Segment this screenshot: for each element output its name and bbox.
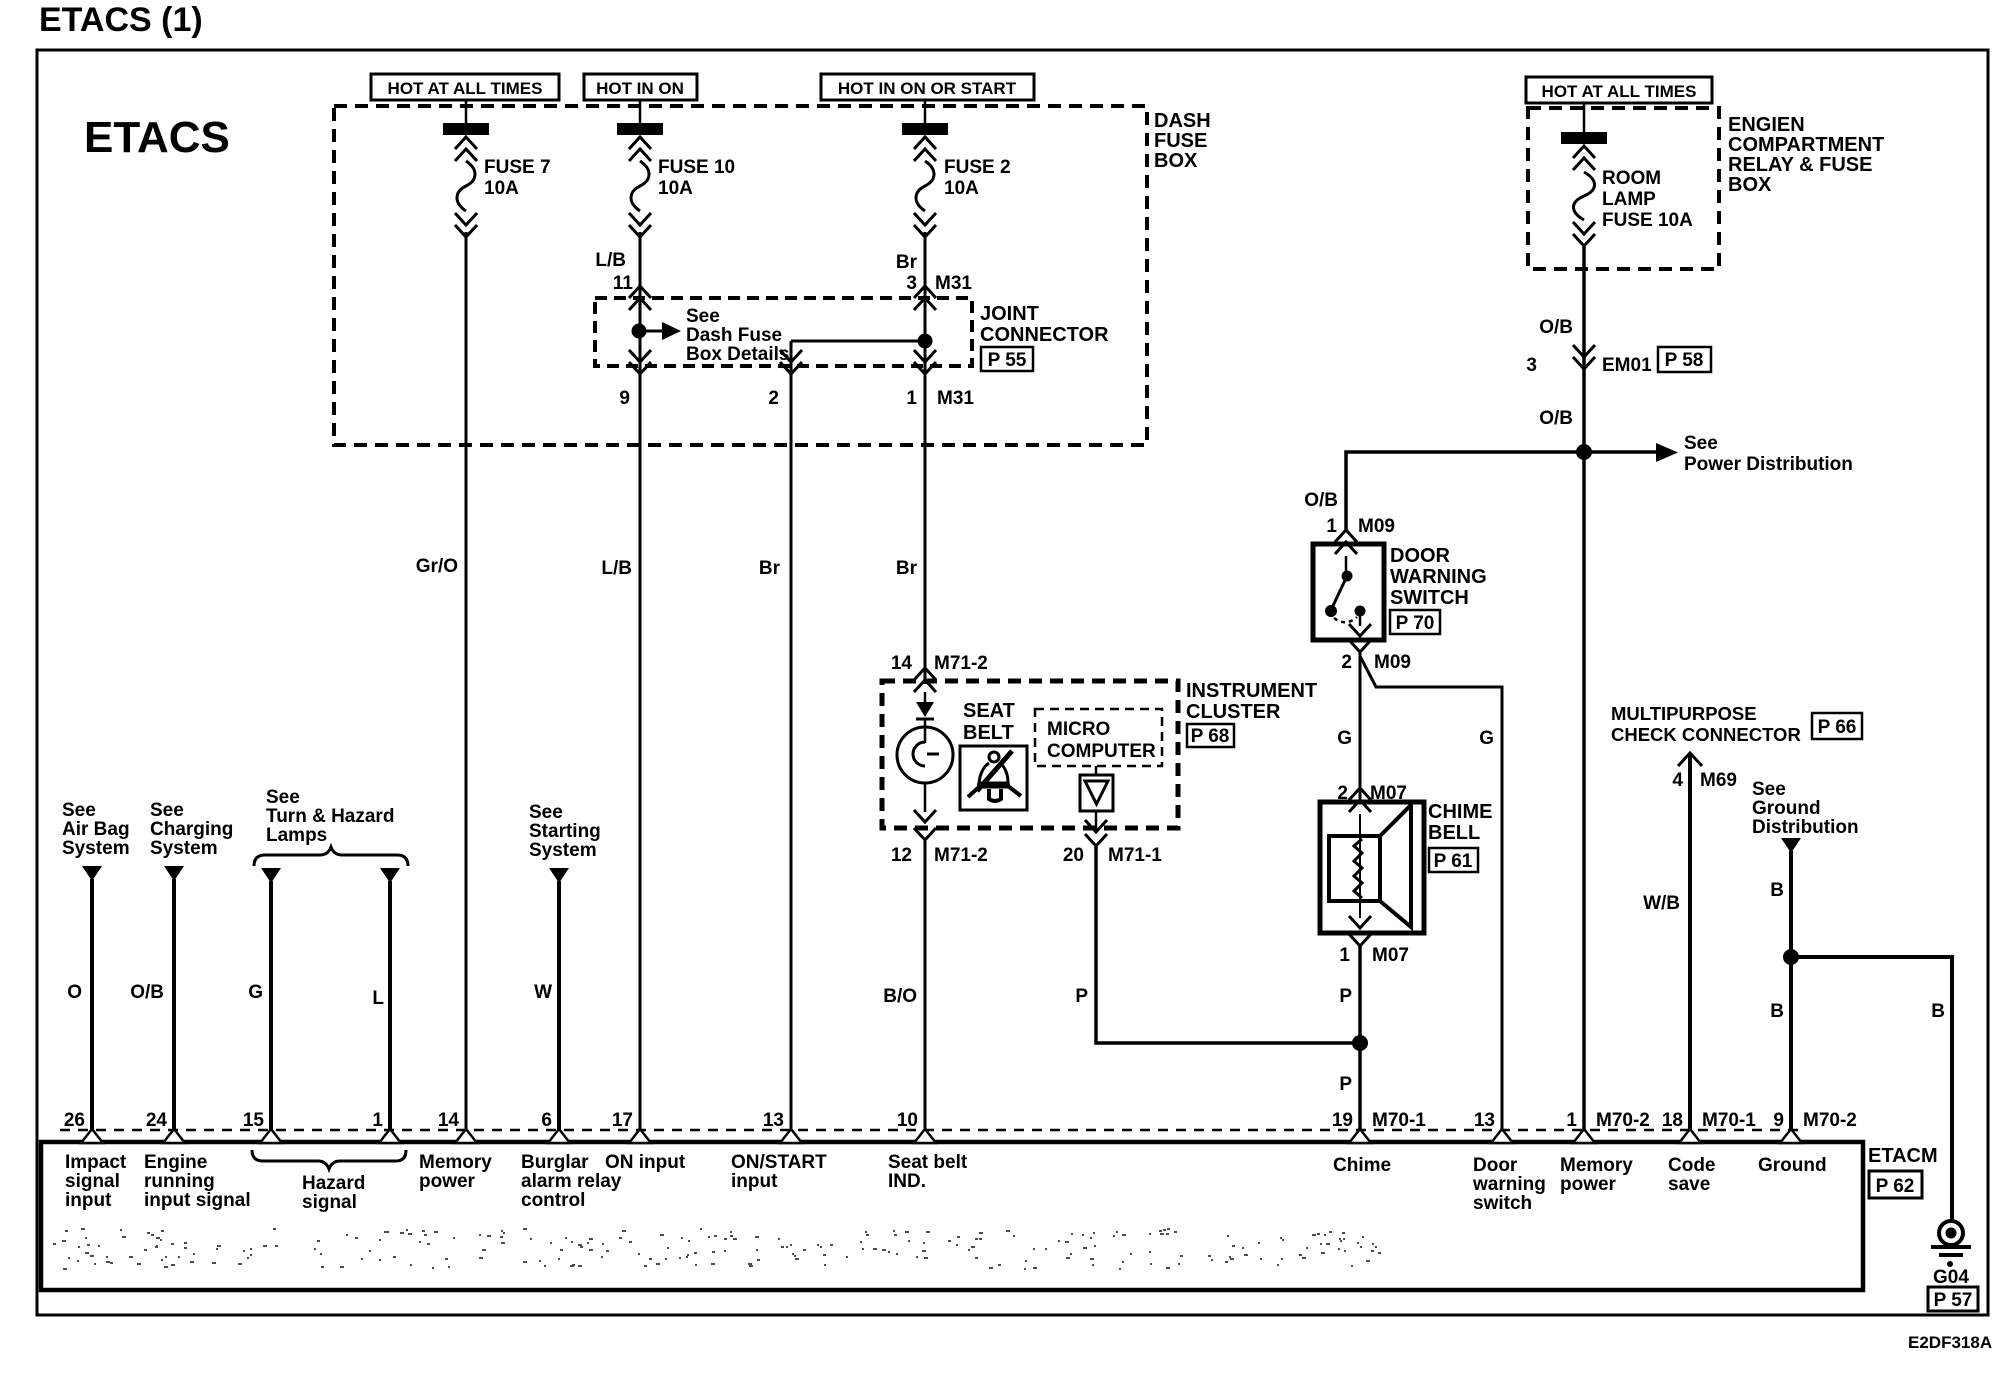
svg-text:M31: M31: [935, 273, 972, 294]
svg-text:W: W: [534, 982, 552, 1003]
node HOT AT ALL TIMES (left): [371, 74, 559, 100]
svg-text:1: 1: [1339, 945, 1350, 966]
svg-text:14: 14: [438, 1110, 460, 1131]
svg-text:M71-1: M71-1: [1108, 845, 1162, 866]
wire Br from joint connector pin 2 to ETACM pin 13: [790, 341, 793, 1131]
svg-text:O: O: [67, 982, 82, 1003]
svg-text:INSTRUMENT: INSTRUMENT: [1186, 680, 1317, 702]
svg-text:10A: 10A: [944, 178, 979, 199]
arrow from air bag system: [82, 866, 102, 881]
diode box micro computer output: [1080, 766, 1113, 832]
svg-text:FUSE 10: FUSE 10: [658, 157, 735, 178]
svg-text:BOX: BOX: [1154, 150, 1198, 172]
pin 2 M07 label: [1337, 783, 1407, 804]
node HOT AT ALL TIMES (right): [1526, 77, 1712, 103]
svg-text:ETACS: ETACS: [84, 113, 230, 162]
svg-text:ENGIEN: ENGIEN: [1728, 114, 1805, 136]
arrow hazard wire G: [261, 868, 281, 883]
pin 1 connector chevrons: [914, 350, 936, 374]
svg-text:See: See: [266, 787, 300, 808]
node junction at power distribution tap: [1576, 444, 1592, 460]
svg-text:P 57: P 57: [1934, 1290, 1973, 1311]
ETACM box: [41, 1142, 1863, 1290]
pin 1 M07 label: [1339, 945, 1409, 966]
node junction ground wires: [1783, 949, 1799, 965]
door warning switch box: [1313, 544, 1384, 640]
wire O/B to ETACM pin 24: [172, 879, 176, 1131]
svg-text:Dash Fuse: Dash Fuse: [686, 325, 782, 346]
svg-text:9: 9: [1773, 1110, 1784, 1131]
wire B/O from cluster to ETACM pin 10: [924, 840, 927, 1131]
svg-text:M31: M31: [937, 388, 974, 409]
label See Ground Distribution: [1752, 779, 1859, 838]
pin 2 M09 label: [1341, 652, 1411, 673]
svg-text:FUSE: FUSE: [1154, 130, 1207, 152]
node HOT IN ON OR START: [821, 74, 1034, 100]
svg-text:CHECK CONNECTOR: CHECK CONNECTOR: [1611, 724, 1801, 745]
svg-text:12: 12: [891, 845, 912, 866]
svg-text:EM01: EM01: [1602, 355, 1652, 376]
svg-text:save: save: [1668, 1174, 1710, 1195]
reference P 57: [1928, 1287, 1978, 1311]
svg-text:13: 13: [763, 1110, 784, 1131]
svg-text:COMPARTMENT: COMPARTMENT: [1728, 134, 1884, 156]
reference P 68: [1187, 724, 1234, 747]
label See Power Distribution: [1684, 433, 1853, 475]
svg-text:1: 1: [372, 1110, 383, 1131]
wire B to junction: [1789, 851, 1793, 957]
ETACM pin 1 M70-2: [1566, 1110, 1649, 1143]
pin 12 M71-2 label: [891, 845, 988, 866]
svg-text:input signal: input signal: [144, 1190, 251, 1211]
svg-text:BOX: BOX: [1728, 174, 1772, 196]
svg-text:1: 1: [906, 388, 917, 409]
fuse FUSE 10 10A: [617, 100, 735, 237]
reference P 70: [1390, 610, 1440, 634]
pin 3 connector chevrons: [914, 286, 936, 310]
svg-text:signal: signal: [302, 1192, 357, 1213]
reference P 62: [1869, 1171, 1922, 1198]
label SEAT BELT: [963, 700, 1015, 744]
svg-text:alarm relay: alarm relay: [521, 1171, 622, 1192]
label INSTRUMENT CLUSTER: [1186, 680, 1317, 723]
ETACM pin 15: [243, 1110, 282, 1143]
svg-text:Power Distribution: Power Distribution: [1684, 454, 1853, 475]
svg-text:System: System: [529, 840, 597, 861]
svg-text:ON input: ON input: [605, 1152, 686, 1173]
node junction on L/B inside joint connector: [632, 324, 647, 339]
svg-text:control: control: [521, 1190, 585, 1211]
label Hazard signal: [302, 1173, 365, 1213]
pin 11 connector chevrons: [629, 286, 651, 310]
svg-text:MULTIPURPOSE: MULTIPURPOSE: [1611, 703, 1757, 724]
wire O/B from room lamp fuse to ETACM pin 1: [1582, 246, 1586, 1131]
svg-text:CONNECTOR: CONNECTOR: [980, 324, 1109, 346]
svg-text:13: 13: [1474, 1110, 1495, 1131]
label See Starting System: [529, 802, 601, 861]
svg-text:W/B: W/B: [1643, 893, 1680, 914]
svg-text:M70-2: M70-2: [1596, 1110, 1650, 1131]
svg-text:10A: 10A: [484, 178, 519, 199]
svg-text:Hazard: Hazard: [302, 1173, 365, 1194]
pin 4 M69 label: [1672, 770, 1737, 791]
ETACM pin 24: [146, 1110, 185, 1143]
svg-text:WARNING: WARNING: [1390, 566, 1487, 588]
svg-text:ROOM: ROOM: [1602, 168, 1661, 189]
svg-text:running: running: [144, 1171, 215, 1192]
svg-text:E2DF318A: E2DF318A: [1908, 1333, 1992, 1352]
svg-text:M07: M07: [1372, 945, 1409, 966]
arrow hazard wire L: [380, 868, 400, 883]
svg-text:COMPUTER: COMPUTER: [1047, 741, 1156, 762]
svg-text:Br: Br: [896, 558, 918, 579]
svg-text:Engine: Engine: [144, 1152, 207, 1173]
svg-text:P 58: P 58: [1665, 350, 1704, 371]
label MULTIPURPOSE CHECK CONNECTOR: [1611, 703, 1801, 745]
svg-text:M70-1: M70-1: [1372, 1110, 1426, 1131]
svg-text:L/B: L/B: [601, 558, 632, 579]
svg-text:3: 3: [906, 273, 917, 294]
ETACM pin 26: [64, 1110, 103, 1143]
svg-text:Turn & Hazard: Turn & Hazard: [266, 806, 394, 827]
ETACM pin 19 M70-1: [1332, 1110, 1426, 1143]
svg-text:B: B: [1770, 880, 1784, 901]
svg-text:14: 14: [891, 653, 913, 674]
svg-text:M09: M09: [1374, 652, 1411, 673]
svg-text:O/B: O/B: [130, 982, 164, 1003]
svg-text:System: System: [62, 838, 130, 859]
lamp seat belt indicator: [897, 727, 953, 822]
ETACM pin 9 M70-2: [1773, 1110, 1856, 1143]
wire branch to ETACM pin 13 door warning switch input: [1360, 656, 1502, 1131]
svg-text:O/B: O/B: [1539, 317, 1573, 338]
svg-text:Seat belt: Seat belt: [888, 1152, 968, 1173]
svg-text:RELAY & FUSE: RELAY & FUSE: [1728, 154, 1872, 176]
svg-text:P: P: [1339, 1074, 1352, 1095]
ETACM pin 18 M70-1: [1662, 1110, 1756, 1143]
label CHIME BELL: [1428, 801, 1492, 844]
svg-text:Distribution: Distribution: [1752, 817, 1859, 838]
svg-text:LAMP: LAMP: [1602, 189, 1656, 210]
svg-text:Ground: Ground: [1752, 798, 1821, 819]
svg-text:See: See: [62, 800, 96, 821]
engine compartment relay & fuse box boundary: [1528, 108, 1719, 269]
svg-text:M69: M69: [1700, 770, 1737, 791]
fuse ROOM LAMP FUSE 10A: [1561, 103, 1693, 246]
wire jumper from Br junction to pin 2: [791, 340, 925, 343]
svg-text:4: 4: [1672, 770, 1683, 791]
label See Charging System: [150, 800, 233, 859]
brace hazard signal: [252, 1150, 406, 1169]
svg-text:FUSE 7: FUSE 7: [484, 157, 551, 178]
svg-text:DASH: DASH: [1154, 110, 1211, 132]
svg-text:HOT AT ALL TIMES: HOT AT ALL TIMES: [388, 79, 543, 98]
svg-text:SWITCH: SWITCH: [1390, 587, 1469, 609]
svg-text:10: 10: [897, 1110, 918, 1131]
ETACM pin 10: [897, 1110, 936, 1143]
svg-text:CHIME: CHIME: [1428, 801, 1492, 823]
svg-text:P 66: P 66: [1818, 717, 1857, 738]
svg-text:17: 17: [612, 1110, 633, 1131]
svg-text:M70-2: M70-2: [1803, 1110, 1857, 1131]
svg-text:Gr/O: Gr/O: [416, 556, 458, 577]
svg-text:Chime: Chime: [1333, 1155, 1391, 1176]
pin 2 M09 connector chevron: [1349, 640, 1371, 652]
switch contact and arm: [1325, 556, 1371, 636]
svg-text:Code: Code: [1668, 1155, 1716, 1176]
ETACM pin 14: [438, 1110, 477, 1143]
reference P 66: [1812, 713, 1862, 739]
svg-text:signal: signal: [65, 1171, 120, 1192]
svg-text:Lamps: Lamps: [266, 825, 327, 846]
svg-text:DOOR: DOOR: [1390, 545, 1451, 567]
ETACM pin 1: [372, 1110, 401, 1143]
ETACM pin function labels: [65, 1152, 251, 1211]
svg-text:System: System: [150, 838, 218, 859]
svg-text:O/B: O/B: [1539, 408, 1573, 429]
svg-text:Memory: Memory: [419, 1152, 492, 1173]
pin 1 M07 connector chevron: [1349, 934, 1371, 946]
svg-text:B: B: [1770, 1001, 1784, 1022]
svg-text:SEAT: SEAT: [963, 700, 1015, 722]
svg-text:B/O: B/O: [883, 986, 917, 1007]
pin 20 M71-1 connector chevron: [1085, 834, 1107, 846]
svg-text:2: 2: [768, 388, 779, 409]
svg-text:BELL: BELL: [1428, 822, 1480, 844]
wire B from junction to ground G04: [1791, 957, 1952, 1221]
chime bell coil and horn: [1329, 805, 1411, 928]
svg-text:input: input: [65, 1190, 112, 1211]
svg-text:Starting: Starting: [529, 821, 601, 842]
pin 20 M71-1 label: [1063, 845, 1162, 866]
wire P from micro computer to junction: [1096, 846, 1360, 1043]
reference P 58: [1658, 347, 1711, 372]
label MICRO COMPUTER: [1047, 719, 1156, 762]
svg-text:3: 3: [1526, 355, 1537, 376]
reference P 61: [1429, 848, 1478, 872]
dash fuse box boundary: [334, 106, 1147, 445]
svg-text:G04: G04: [1933, 1267, 1969, 1288]
svg-text:Burglar: Burglar: [521, 1152, 589, 1173]
svg-text:Charging: Charging: [150, 819, 233, 840]
wire P from junction to ETACM pin 19: [1358, 1043, 1362, 1131]
arrow from charging system: [164, 866, 184, 881]
svg-text:ETACS (1): ETACS (1): [39, 1, 203, 39]
node HOT IN ON: [584, 74, 697, 100]
pin 3 EM01 label: [1526, 355, 1652, 376]
svg-text:M09: M09: [1358, 516, 1395, 537]
svg-text:Memory: Memory: [1560, 1155, 1633, 1176]
svg-text:BELT: BELT: [963, 722, 1014, 744]
svg-text:warning: warning: [1472, 1174, 1546, 1195]
svg-text:JOINT: JOINT: [980, 303, 1039, 325]
pin 14 connector chevrons: [914, 668, 936, 692]
diode in seat belt lamp circuit: [916, 692, 934, 728]
svg-text:See: See: [529, 802, 563, 823]
joint connector boundary: [595, 298, 972, 366]
label JOINT CONNECTOR: [980, 303, 1109, 346]
label See Dash Fuse Box Details: [686, 306, 789, 365]
node junction on Br inside joint connector: [918, 334, 933, 349]
svg-text:G: G: [1479, 728, 1494, 749]
ETACM pin 6: [541, 1110, 570, 1143]
icon seat belt pictogram: [960, 746, 1027, 810]
svg-text:See: See: [1752, 779, 1786, 800]
svg-text:ETACM: ETACM: [1868, 1145, 1938, 1167]
svg-text:19: 19: [1332, 1110, 1353, 1131]
wire P from chime bell to junction: [1358, 946, 1362, 1043]
svg-text:1: 1: [1566, 1110, 1577, 1131]
svg-text:M70-1: M70-1: [1702, 1110, 1756, 1131]
wire Gr/O from fuse 7 to ETACM pin 14: [465, 232, 468, 1131]
scan noise: [53, 1228, 1381, 1270]
svg-text:24: 24: [146, 1110, 168, 1131]
wire Br from fuse 2 through joint connector to instrument cluster: [924, 232, 927, 684]
ETACM pin 17: [612, 1110, 651, 1143]
svg-text:B: B: [1931, 1001, 1945, 1022]
svg-text:11: 11: [613, 273, 634, 294]
chime bell box: [1320, 802, 1424, 933]
svg-text:Impact: Impact: [65, 1152, 127, 1173]
svg-text:18: 18: [1662, 1110, 1683, 1131]
svg-text:ON/START: ON/START: [731, 1152, 827, 1173]
svg-text:FUSE 10A: FUSE 10A: [1602, 210, 1693, 231]
pin 9 connector chevrons: [629, 350, 651, 374]
svg-text:P: P: [1339, 986, 1352, 1007]
arrow from starting system: [549, 868, 569, 883]
wire G from door switch to chime bell: [1359, 652, 1362, 800]
pin 1 M31 label: [906, 388, 974, 409]
wire W to ETACM pin 6: [557, 881, 561, 1131]
svg-text:20: 20: [1063, 845, 1084, 866]
label DOOR WARNING SWITCH: [1390, 545, 1487, 609]
svg-text:P 61: P 61: [1434, 851, 1473, 872]
svg-text:power: power: [1560, 1174, 1617, 1195]
micro computer boundary: [1035, 709, 1162, 766]
pin 1 M09 label: [1326, 516, 1395, 537]
svg-text:Br: Br: [896, 252, 918, 273]
wire O to ETACM pin 26: [90, 879, 94, 1131]
pin 2 connector chevrons: [780, 350, 802, 374]
svg-text:HOT AT ALL TIMES: HOT AT ALL TIMES: [1542, 82, 1697, 101]
svg-text:L: L: [372, 988, 384, 1009]
svg-text:FUSE 2: FUSE 2: [944, 157, 1011, 178]
instrument cluster boundary: [882, 681, 1178, 828]
svg-text:G: G: [248, 982, 263, 1003]
ETACM pin 13: [763, 1110, 802, 1143]
fuse FUSE 7 10A: [443, 100, 551, 237]
svg-text:L/B: L/B: [595, 250, 626, 271]
connector EM01 chevrons: [1573, 345, 1595, 369]
ETACM connector dashed line: [60, 1129, 1800, 1132]
svg-text:P 68: P 68: [1191, 726, 1230, 747]
svg-text:Ground: Ground: [1758, 1155, 1827, 1176]
svg-text:M71-2: M71-2: [934, 845, 988, 866]
arrow see dash fuse box details: [646, 330, 662, 333]
arrow to multipurpose check connector: [1678, 753, 1702, 1131]
svg-text:Br: Br: [759, 558, 781, 579]
svg-text:9: 9: [619, 388, 630, 409]
svg-text:See: See: [150, 800, 184, 821]
wire L/B from fuse 10 through joint connector to ETACM pin 17: [639, 232, 642, 1131]
ETACM pin 13: [1474, 1110, 1513, 1143]
svg-text:15: 15: [243, 1110, 265, 1131]
svg-text:P 62: P 62: [1876, 1176, 1915, 1197]
svg-text:P 55: P 55: [988, 350, 1027, 371]
svg-text:2: 2: [1341, 652, 1352, 673]
label See Turn & Hazard Lamps: [266, 787, 394, 846]
svg-text:switch: switch: [1473, 1193, 1532, 1214]
svg-text:input: input: [731, 1171, 778, 1192]
svg-text:10A: 10A: [658, 178, 693, 199]
svg-text:P: P: [1075, 986, 1088, 1007]
svg-text:See: See: [686, 306, 720, 327]
fuse FUSE 2 10A: [902, 100, 1011, 237]
wire branch to door warning switch: [1346, 452, 1584, 532]
svg-text:MICRO: MICRO: [1047, 719, 1110, 740]
pin 14 M71-2 label: [891, 653, 988, 674]
svg-text:6: 6: [541, 1110, 552, 1131]
arrow see power distribution: [1584, 450, 1658, 454]
remaining pin function labels: [419, 1152, 1827, 1214]
svg-text:1: 1: [1326, 516, 1337, 537]
pin 3 M31 label: [906, 273, 972, 294]
wire B from junction to ETACM pin 9: [1789, 957, 1793, 1131]
svg-text:26: 26: [64, 1110, 85, 1131]
wire L to ETACM pin 1: [388, 881, 392, 1131]
svg-text:IND.: IND.: [888, 1171, 926, 1192]
svg-text:HOT IN ON: HOT IN ON: [596, 79, 684, 98]
svg-text:G: G: [1337, 728, 1352, 749]
label See Air Bag System: [62, 800, 130, 859]
brace over hazard wires: [254, 847, 408, 866]
svg-text:Box Details: Box Details: [686, 344, 789, 365]
svg-text:HOT IN ON OR START: HOT IN ON OR START: [838, 79, 1017, 98]
svg-text:power: power: [419, 1171, 476, 1192]
svg-text:Door: Door: [1473, 1155, 1518, 1176]
pin 1 M09 connector chevrons: [1335, 530, 1357, 554]
node junction chime/micro wires: [1352, 1035, 1368, 1051]
label DASH FUSE BOX: [1154, 110, 1211, 172]
pin 2 M07 connector chevrons: [1349, 788, 1371, 812]
svg-text:CLUSTER: CLUSTER: [1186, 701, 1281, 723]
svg-text:O/B: O/B: [1304, 490, 1338, 511]
svg-text:P 70: P 70: [1396, 613, 1435, 634]
ground G04: [1931, 1221, 1971, 1288]
pin 12 M71-2 connector chevron: [914, 828, 936, 840]
svg-text:Air Bag: Air Bag: [62, 819, 130, 840]
svg-text:See: See: [1684, 433, 1718, 454]
label ENGIEN COMPARTMENT RELAY & FUSE BOX: [1728, 114, 1884, 196]
wire G to ETACM pin 15: [269, 881, 273, 1131]
arrow from ground distribution: [1781, 838, 1801, 853]
reference P 55: [981, 347, 1033, 371]
svg-text:M71-2: M71-2: [934, 653, 988, 674]
